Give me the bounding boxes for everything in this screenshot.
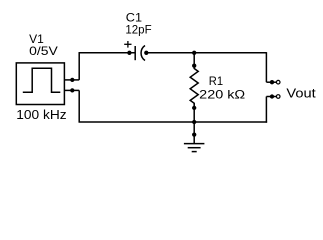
terminal circle Vout bottom <box>276 95 280 99</box>
wire left vertical bottom <box>78 90 80 122</box>
svg-text:Vout: Vout <box>286 85 316 100</box>
output stub Vout top <box>266 81 276 83</box>
svg-text:220 kΩ: 220 kΩ <box>199 88 245 102</box>
output stub Vout bottom <box>266 96 276 98</box>
terminal circle Vout top <box>276 80 280 84</box>
pin stub V1 top <box>64 79 79 81</box>
junction dot C1 right pin <box>144 51 148 55</box>
junction dot R1 top pin <box>192 64 196 68</box>
svg-text:12pF: 12pF <box>125 22 151 36</box>
source V1 (pulse source box) <box>16 63 64 105</box>
junction dot node bottom at R1 <box>192 120 196 124</box>
svg-text:100 kHz: 100 kHz <box>16 107 66 122</box>
junction dot C1 left pin <box>127 51 131 55</box>
wire top from C1 to right rail <box>146 52 266 54</box>
wire right vertical top <box>265 52 267 82</box>
junction dot R1 bottom pin <box>192 106 196 110</box>
wire top from source to C1 <box>79 52 136 54</box>
pin stub V1 bottom <box>64 89 79 91</box>
junction dot node top at R1 <box>192 51 196 55</box>
junction dot V1 bottom pin <box>70 88 74 92</box>
junction dot V1 top pin <box>70 78 74 82</box>
wire left vertical top <box>78 53 80 80</box>
junction dot Vout bottom <box>270 94 274 98</box>
ground <box>184 122 205 152</box>
svg-text:R1: R1 <box>209 74 224 88</box>
junction dot Vout top <box>270 80 274 84</box>
polarity plus sign C1 <box>124 41 131 48</box>
wire right vertical bottom <box>265 97 267 123</box>
junction dot ground pin <box>192 132 196 136</box>
svg-text:0/5V: 0/5V <box>29 44 58 58</box>
wire bottom rail <box>79 121 268 123</box>
capacitor C1 <box>135 46 145 61</box>
resistor R1 <box>190 53 198 122</box>
